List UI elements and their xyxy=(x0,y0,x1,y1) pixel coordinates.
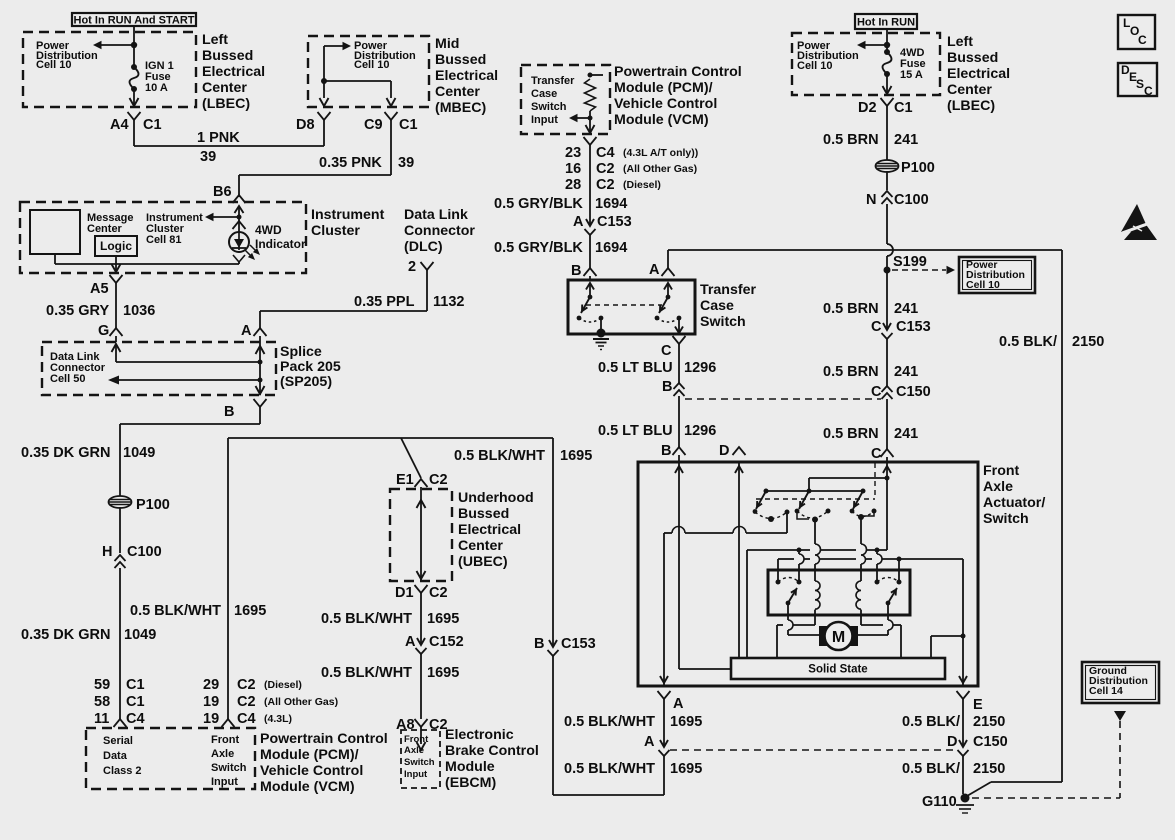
svg-text:11: 11 xyxy=(94,711,109,727)
grommet P100 right xyxy=(876,160,935,176)
wire 0.5 GRY/BLK 1694 upper xyxy=(589,144,591,214)
text Powertrain Control Module PCM/VCM (bottom) xyxy=(260,731,388,795)
pin rows 23/16/28 of PCM xyxy=(565,145,698,193)
svg-text:1049: 1049 xyxy=(124,627,156,643)
connector B/C150 (transfer case) xyxy=(662,379,685,396)
wire 0.5 BRN 241 third xyxy=(886,339,888,386)
svg-text:C: C xyxy=(661,343,672,359)
svg-text:0.5 BRN: 0.5 BRN xyxy=(823,364,879,380)
svg-text:241: 241 xyxy=(894,132,918,148)
svg-text:D: D xyxy=(719,443,729,459)
4WD indicator lamp xyxy=(229,232,260,260)
wire: splice pack G branch xyxy=(112,344,261,362)
svg-text:C2: C2 xyxy=(429,472,448,488)
svg-text:C153: C153 xyxy=(561,636,596,652)
svg-text:Center: Center xyxy=(202,80,247,96)
svg-text:1694: 1694 xyxy=(595,240,627,256)
svg-text:Transfer: Transfer xyxy=(700,282,756,298)
wire 0.5 LT BLU 1296 upper xyxy=(678,343,680,383)
text Serial Data Class 2 xyxy=(103,735,142,777)
text Power Distribution Cell 10 (left LBEC) xyxy=(36,40,98,71)
svg-text:C: C xyxy=(871,384,882,400)
wire 0.35 GRY 1036 xyxy=(115,282,117,328)
svg-text:C: C xyxy=(1138,33,1147,47)
svg-text:Connector: Connector xyxy=(404,223,475,239)
connector B6 of instrument cluster xyxy=(213,184,246,213)
svg-text:Cell 14: Cell 14 xyxy=(1089,685,1123,697)
svg-text:1296: 1296 xyxy=(684,360,716,376)
svg-text:10 A: 10 A xyxy=(145,82,168,94)
node: junction dot in LBEC xyxy=(131,42,137,48)
svg-text:(LBEC): (LBEC) xyxy=(202,96,250,112)
switch SW3 of actuator xyxy=(850,491,877,520)
svg-text:0.5 BLK/: 0.5 BLK/ xyxy=(902,761,960,777)
bus line A inside actuator xyxy=(747,548,887,659)
connector 11/C4 into serial data xyxy=(114,719,127,727)
svg-text:P100: P100 xyxy=(901,160,935,176)
wire from Hot In RUN into LBEC xyxy=(886,29,888,52)
svg-text:C100: C100 xyxy=(894,192,929,208)
svg-text:1132: 1132 xyxy=(433,294,464,310)
bus line B inside actuator xyxy=(778,557,963,562)
svg-text:1694: 1694 xyxy=(595,196,627,212)
wire bus B to relay contact left xyxy=(777,559,779,582)
svg-text:28: 28 xyxy=(565,177,581,193)
connector H/C100 xyxy=(102,544,162,568)
coil L2 xyxy=(856,581,861,625)
connector B of front axle actuator xyxy=(661,443,686,459)
switch SW2 of actuator xyxy=(795,491,831,523)
svg-text:S199: S199 xyxy=(893,254,927,270)
grommet P100 left xyxy=(109,496,170,513)
wire H2 coil L1 to solid state xyxy=(777,625,815,658)
svg-text:A4: A4 xyxy=(110,117,129,133)
svg-text:P100: P100 xyxy=(136,497,170,513)
svg-text:Module (VCM): Module (VCM) xyxy=(614,112,709,128)
node: junction dot in right LBEC xyxy=(884,42,890,48)
svg-text:0.5 BLK/WHT: 0.5 BLK/WHT xyxy=(564,714,655,730)
wire 0.35 DK GRN 1049 upper xyxy=(120,406,260,496)
arrow: fuse output exits LBEC xyxy=(130,89,139,106)
svg-text:G110: G110 xyxy=(922,794,957,810)
svg-text:1 PNK: 1 PNK xyxy=(197,130,240,146)
svg-text:Cluster: Cluster xyxy=(311,223,360,239)
text Electronic Brake Control Module (EBCM) xyxy=(445,727,539,791)
LBEC dashed box (Left Bussed Electrical Center) xyxy=(23,32,196,107)
svg-text:C4: C4 xyxy=(596,145,615,161)
svg-text:Cell 10: Cell 10 xyxy=(797,60,832,72)
svg-text:Front: Front xyxy=(211,734,239,746)
text Front Axle Switch Input (EBCM) xyxy=(404,734,435,780)
svg-text:(EBCM): (EBCM) xyxy=(445,775,496,791)
node: C branch dot xyxy=(885,476,890,481)
svg-text:15 A: 15 A xyxy=(900,69,923,81)
svg-text:B: B xyxy=(662,379,672,395)
svg-text:1695: 1695 xyxy=(670,714,702,730)
ground G110 xyxy=(922,794,974,814)
connector E1/C2 of UBEC xyxy=(396,472,448,488)
arrow to Power Distribution Cell 10 (right) xyxy=(857,41,887,49)
svg-text:1695: 1695 xyxy=(670,761,702,777)
svg-text:(MBEC): (MBEC) xyxy=(435,100,486,116)
svg-text:Front: Front xyxy=(983,463,1020,479)
svg-text:0.5 GRY/BLK: 0.5 GRY/BLK xyxy=(494,196,583,212)
label 0.5 BRN 241 fourth xyxy=(823,426,918,442)
svg-text:Case: Case xyxy=(700,298,734,314)
connector D of front axle actuator xyxy=(719,443,746,459)
label 0.5 BLK/WHT 1695 (EBCM branch) xyxy=(454,448,592,464)
wire 0.5 BRN 241 fourth xyxy=(886,399,888,449)
wire bus B to relay contact right end xyxy=(898,559,900,582)
svg-text:0.35 GRY: 0.35 GRY xyxy=(46,303,109,319)
svg-text:C2: C2 xyxy=(429,585,448,601)
MBEC dashed box (Mid Bussed Electrical Center) xyxy=(308,36,429,107)
arrow: ground distribution pointer xyxy=(1114,711,1126,721)
label 0.5 BLK/ 2150 (E upper) xyxy=(902,714,1005,730)
wire switch common bus xyxy=(764,489,866,494)
connector E of front axle actuator (below) xyxy=(957,691,984,713)
svg-text:(All Other Gas): (All Other Gas) xyxy=(264,696,338,708)
svg-text:0.5 LT BLU: 0.5 LT BLU xyxy=(598,423,673,439)
instrument cluster dashed box xyxy=(20,202,306,273)
svg-text:S: S xyxy=(1136,77,1144,91)
svg-text:Switch: Switch xyxy=(211,762,247,774)
ground: transfer case switch xyxy=(593,329,609,350)
svg-text:A: A xyxy=(649,262,660,278)
wire 0.5 BLK/WHT down to C153 B xyxy=(552,438,554,647)
svg-text:Switch: Switch xyxy=(531,101,567,113)
svg-text:Axle: Axle xyxy=(211,748,234,760)
svg-text:Class 2: Class 2 xyxy=(103,765,142,777)
wire SW3 to coil L2 (hops bus A and B) xyxy=(861,517,867,581)
splice S199 xyxy=(884,254,927,274)
text Transfer Case Switch Input xyxy=(531,75,575,126)
legend box DESC xyxy=(1118,63,1157,98)
transfer case switch box xyxy=(568,280,695,334)
wire: splice pack A-B through wire xyxy=(256,336,265,395)
wire 0.5 BLK/ 2150 below E xyxy=(962,698,964,747)
label 0.5 BLK/WHT 1695 (C152-EBCM) xyxy=(321,665,459,681)
svg-text:E1: E1 xyxy=(396,472,414,488)
svg-text:C100: C100 xyxy=(127,544,162,560)
label 0.5 GRY/BLK 1694 upper xyxy=(494,196,627,212)
label 0.35 DK GRN 1049 upper xyxy=(21,445,155,461)
svg-text:C153: C153 xyxy=(896,319,931,335)
LBEC dashed box (right) xyxy=(792,33,940,95)
svg-text:0.5 BLK/WHT: 0.5 BLK/WHT xyxy=(130,603,221,619)
svg-text:Switch: Switch xyxy=(983,511,1029,527)
wire B6 to 4WD indicator xyxy=(233,206,246,233)
svg-text:H: H xyxy=(102,544,112,560)
arrow to transfer case switch input text xyxy=(569,114,590,122)
svg-text:Module (PCM)/: Module (PCM)/ xyxy=(614,80,713,96)
connector D1/C2 of UBEC xyxy=(395,585,448,601)
label 0.5 LT BLU 1296 upper xyxy=(598,360,716,376)
svg-text:Powertrain Control: Powertrain Control xyxy=(614,64,742,80)
svg-text:23: 23 xyxy=(565,145,581,161)
svg-text:Instrument: Instrument xyxy=(311,207,385,223)
svg-text:A: A xyxy=(644,734,655,750)
wire P100 to C100 right xyxy=(886,171,888,190)
arrow: logic output to A5 xyxy=(112,264,121,272)
label 1 PNK 39 xyxy=(197,130,240,165)
text Instrument Cluster (title) xyxy=(311,207,385,239)
svg-text:Bussed: Bussed xyxy=(435,52,486,68)
svg-text:Switch: Switch xyxy=(404,757,435,768)
svg-text:1695: 1695 xyxy=(234,603,266,619)
message center box xyxy=(30,210,80,254)
wire K2 to motor (hops H3) xyxy=(858,603,893,635)
label 0.5 GRY/BLK 1694 lower xyxy=(494,240,627,256)
svg-text:B: B xyxy=(534,636,544,652)
connector B of transfer case switch xyxy=(571,263,597,279)
connector A8/C2 of EBCM xyxy=(396,717,448,733)
label 0.5 LT BLU 1296 lower xyxy=(598,423,716,439)
text Data Link Connector (DLC) xyxy=(404,207,475,255)
svg-text:B: B xyxy=(661,443,671,459)
wire B inside actuator to solid state xyxy=(675,462,731,669)
svg-text:Center: Center xyxy=(87,223,123,235)
connector A/C153 (transfer case) xyxy=(573,214,632,235)
text Mid Bussed Electrical Center (MBEC) xyxy=(435,36,498,116)
svg-text:Vehicle Control: Vehicle Control xyxy=(614,96,717,112)
svg-text:C1: C1 xyxy=(126,677,145,693)
svg-text:1695: 1695 xyxy=(560,448,592,464)
wire 0.5 BRN 241 second segment with hop xyxy=(887,204,893,330)
label 0.5 BLK/WHT 1695 (UBEC-C152) xyxy=(321,611,459,627)
node: junction at 4WD indicator feed xyxy=(237,215,242,220)
wire SW2 to coil L1 (hops bus A and B) xyxy=(815,519,821,581)
connector B/C153 xyxy=(534,636,596,656)
connector A/C150 lower xyxy=(644,734,670,756)
arrow: MBEC D8 feed xyxy=(320,98,329,106)
svg-text:0.5 BRN: 0.5 BRN xyxy=(823,426,879,442)
svg-text:2150: 2150 xyxy=(1072,334,1104,350)
relay contact K1 (left) xyxy=(776,578,802,606)
svg-text:C1: C1 xyxy=(894,100,913,116)
svg-text:Module: Module xyxy=(445,759,495,775)
connector D2/C1 of LBEC xyxy=(858,98,913,116)
dashed actuator position link vertical xyxy=(874,463,876,499)
svg-text:C1: C1 xyxy=(143,117,162,133)
wire 0.35 PPL 1132 xyxy=(260,269,427,328)
svg-text:Axle: Axle xyxy=(983,479,1013,495)
svg-text:C9: C9 xyxy=(364,117,383,133)
wire inside MBEC xyxy=(321,46,391,98)
wire: transfer case switch A to S199 bus xyxy=(668,250,1062,268)
svg-text:0.5 BRN: 0.5 BRN xyxy=(823,132,879,148)
wire bus A to relay contact right (hops B) xyxy=(877,550,882,582)
svg-text:G: G xyxy=(98,323,109,339)
svg-text:Left: Left xyxy=(202,32,228,48)
wire 0.5 BRN 241 (D2 to P100) xyxy=(886,105,888,160)
svg-text:241: 241 xyxy=(894,364,918,380)
svg-text:Electronic: Electronic xyxy=(445,727,514,743)
text 4WD Fuse 15 A xyxy=(900,47,926,81)
label 0.35 PPL 1132 xyxy=(354,294,464,310)
connector 2 of DLC xyxy=(408,259,434,275)
wire 0.5 GRY/BLK 1694 lower xyxy=(589,235,591,268)
svg-text:C152: C152 xyxy=(429,634,464,650)
svg-text:Electrical: Electrical xyxy=(947,66,1010,82)
wire C to switch commons xyxy=(809,478,887,491)
text Splice Pack 205 (SP205) xyxy=(280,344,341,390)
svg-text:19: 19 xyxy=(203,711,219,727)
ESD sensitive symbol xyxy=(1121,204,1157,240)
svg-text:Cell 10: Cell 10 xyxy=(36,59,71,71)
dashed arrow S199 to Power Distribution Cell 10 xyxy=(892,266,955,274)
ground distribution cell 14 box xyxy=(1082,662,1159,703)
svg-text:2150: 2150 xyxy=(973,761,1005,777)
svg-text:C4: C4 xyxy=(237,711,256,727)
svg-text:N: N xyxy=(866,192,876,208)
svg-text:Switch: Switch xyxy=(700,314,746,330)
svg-text:Logic: Logic xyxy=(100,239,132,253)
connector A/C152 xyxy=(405,632,464,654)
svg-text:C153: C153 xyxy=(597,214,632,230)
label 0.5 BLK/WHT 1695 (PCM branch) xyxy=(130,603,266,619)
arrow: 4WD fuse output exits LBEC xyxy=(883,74,892,94)
arrow to Power Distribution Cell 10 (left) xyxy=(93,41,134,49)
svg-text:0.5 LT BLU: 0.5 LT BLU xyxy=(598,360,673,376)
connector N/C100 xyxy=(866,191,929,208)
svg-text:0.5 BLK/WHT: 0.5 BLK/WHT xyxy=(564,761,655,777)
fuse 4WD Fuse 15 A xyxy=(883,49,892,77)
svg-text:D1: D1 xyxy=(395,585,414,601)
wire 0.5 BLK/WHT 1695 to PCM front axle switch input xyxy=(227,438,229,719)
connector B of splice pack xyxy=(224,399,267,420)
dashed actuator position link horizontal xyxy=(756,498,875,500)
svg-text:241: 241 xyxy=(894,301,918,317)
connector C9/C1 of MBEC xyxy=(364,112,418,133)
label 0.5 BRN 241 second xyxy=(823,301,918,317)
svg-text:Powertrain Control: Powertrain Control xyxy=(260,731,388,747)
label 0.5 BLK/WHT 1695 (A lower) xyxy=(564,761,702,777)
svg-text:0.35 PNK: 0.35 PNK xyxy=(319,155,382,171)
connector A of splice pack xyxy=(241,323,267,339)
svg-text:16: 16 xyxy=(565,161,581,177)
arrow to Power Distribution Cell 10 (MBEC) xyxy=(324,42,351,50)
arrow to Instrument Cluster Cell 81 xyxy=(205,213,239,221)
svg-text:E: E xyxy=(973,697,983,713)
svg-text:Hot In RUN: Hot In RUN xyxy=(857,17,915,29)
svg-text:C: C xyxy=(871,319,882,335)
connector C of transfer case switch xyxy=(661,336,686,359)
dashed mechanical link of transfer case switch xyxy=(586,304,662,306)
svg-text:B6: B6 xyxy=(213,184,232,200)
svg-text:C150: C150 xyxy=(896,384,931,400)
svg-text:Left: Left xyxy=(947,34,973,50)
text Data Link Connector Cell 50 xyxy=(50,351,106,385)
front axle actuator/switch box xyxy=(638,462,978,686)
connector C/C153 right xyxy=(871,319,931,339)
svg-text:A: A xyxy=(673,696,684,712)
svg-text:A5: A5 xyxy=(90,281,109,297)
wire 0.35 DK GRN 1049 lower xyxy=(119,568,121,719)
dashed link C150 A-D xyxy=(670,749,957,751)
UBEC dashed box xyxy=(390,489,452,581)
text Transfer Case Switch xyxy=(700,282,756,330)
wire D inside actuator to solid state xyxy=(735,462,743,658)
svg-text:241: 241 xyxy=(894,426,918,442)
dashed wire G110 to ground distribution xyxy=(972,721,1120,798)
label 0.35 PNK 39 xyxy=(319,155,414,171)
svg-text:0.35 PPL: 0.35 PPL xyxy=(354,294,415,310)
power source label "Hot In RUN And START" xyxy=(72,13,196,27)
logic box xyxy=(95,236,137,256)
svg-text:58: 58 xyxy=(94,694,110,710)
switch S-left inside transfer case switch xyxy=(577,283,604,331)
resistor: transfer case switch pull-up xyxy=(585,73,604,121)
svg-text:C: C xyxy=(871,446,882,462)
svg-text:D8: D8 xyxy=(296,117,315,133)
connector C/C150 right xyxy=(871,384,931,400)
legend box LOC xyxy=(1118,15,1155,49)
connector A4/C1 of LBEC xyxy=(110,112,162,133)
svg-text:Serial: Serial xyxy=(103,735,133,747)
wire 0.5 BLK/WHT 1695 (UBEC to C152) xyxy=(420,592,422,632)
relay box inside actuator xyxy=(768,570,910,615)
wire 0.5 LT BLU 1296 lower xyxy=(678,396,680,447)
wire K1 to motor (hops H2) xyxy=(788,603,820,635)
wire C inside actuator xyxy=(883,462,891,550)
connector D8 of MBEC xyxy=(296,112,331,133)
svg-text:C2: C2 xyxy=(596,161,615,177)
wire 0.5 BLK/WHT 1695 to front axle actuator A xyxy=(553,656,664,795)
svg-text:C150: C150 xyxy=(973,734,1008,750)
PCM transfer case switch input dashed box xyxy=(521,65,610,134)
svg-text:29: 29 xyxy=(203,677,219,693)
connector A of front axle actuator (below) xyxy=(658,691,685,712)
svg-text:(LBEC): (LBEC) xyxy=(947,98,995,114)
text Front Axle Actuator/Switch xyxy=(983,463,1045,527)
label 0.5 BRN 241 first xyxy=(823,132,918,148)
svg-text:C1: C1 xyxy=(399,117,418,133)
switch SW1 of actuator xyxy=(753,491,790,533)
svg-text:(Diesel): (Diesel) xyxy=(623,179,661,191)
connector A5 of instrument cluster xyxy=(90,275,123,297)
label 0.5 BLK/ 2150 (right side) xyxy=(999,334,1104,350)
wire bus A to relay contact (hops B) xyxy=(799,550,804,582)
svg-text:C2: C2 xyxy=(596,177,615,193)
splice pack dashed box SP205 xyxy=(42,342,276,395)
arrow: MBEC C9 feed xyxy=(387,98,396,106)
wire H3 coil L2 to solid state xyxy=(861,625,901,658)
svg-text:A: A xyxy=(241,323,252,339)
wire 0.5 BLK/WHT 1695 (C152 to EBCM) xyxy=(420,654,422,719)
svg-text:Pack 205: Pack 205 xyxy=(280,359,341,375)
svg-text:59: 59 xyxy=(94,677,110,693)
label 0.5 BLK/ 2150 (E lower) xyxy=(902,761,1005,777)
svg-text:Splice: Splice xyxy=(280,344,322,360)
power source label "Hot In RUN" xyxy=(855,14,917,29)
svg-text:(Diesel): (Diesel) xyxy=(264,679,302,691)
svg-text:1695: 1695 xyxy=(427,611,459,627)
wire 0.5 BLK/ 2150 right side down xyxy=(967,250,1062,796)
connector D/C150 lower xyxy=(947,734,1008,756)
svg-text:Actuator/: Actuator/ xyxy=(983,495,1045,511)
svg-text:A: A xyxy=(405,634,416,650)
pin rows 59/58/11 of PCM serial data xyxy=(94,677,145,727)
wire indicator/logic/message-center common xyxy=(55,254,239,273)
connector C of front axle actuator xyxy=(871,446,894,462)
svg-text:0.35 DK GRN: 0.35 DK GRN xyxy=(21,445,110,461)
text Instrument Cluster Cell 81 xyxy=(146,212,203,246)
svg-text:Input: Input xyxy=(531,114,558,126)
svg-text:Front: Front xyxy=(404,734,429,745)
svg-text:C2: C2 xyxy=(237,677,256,693)
svg-text:C4: C4 xyxy=(126,711,145,727)
